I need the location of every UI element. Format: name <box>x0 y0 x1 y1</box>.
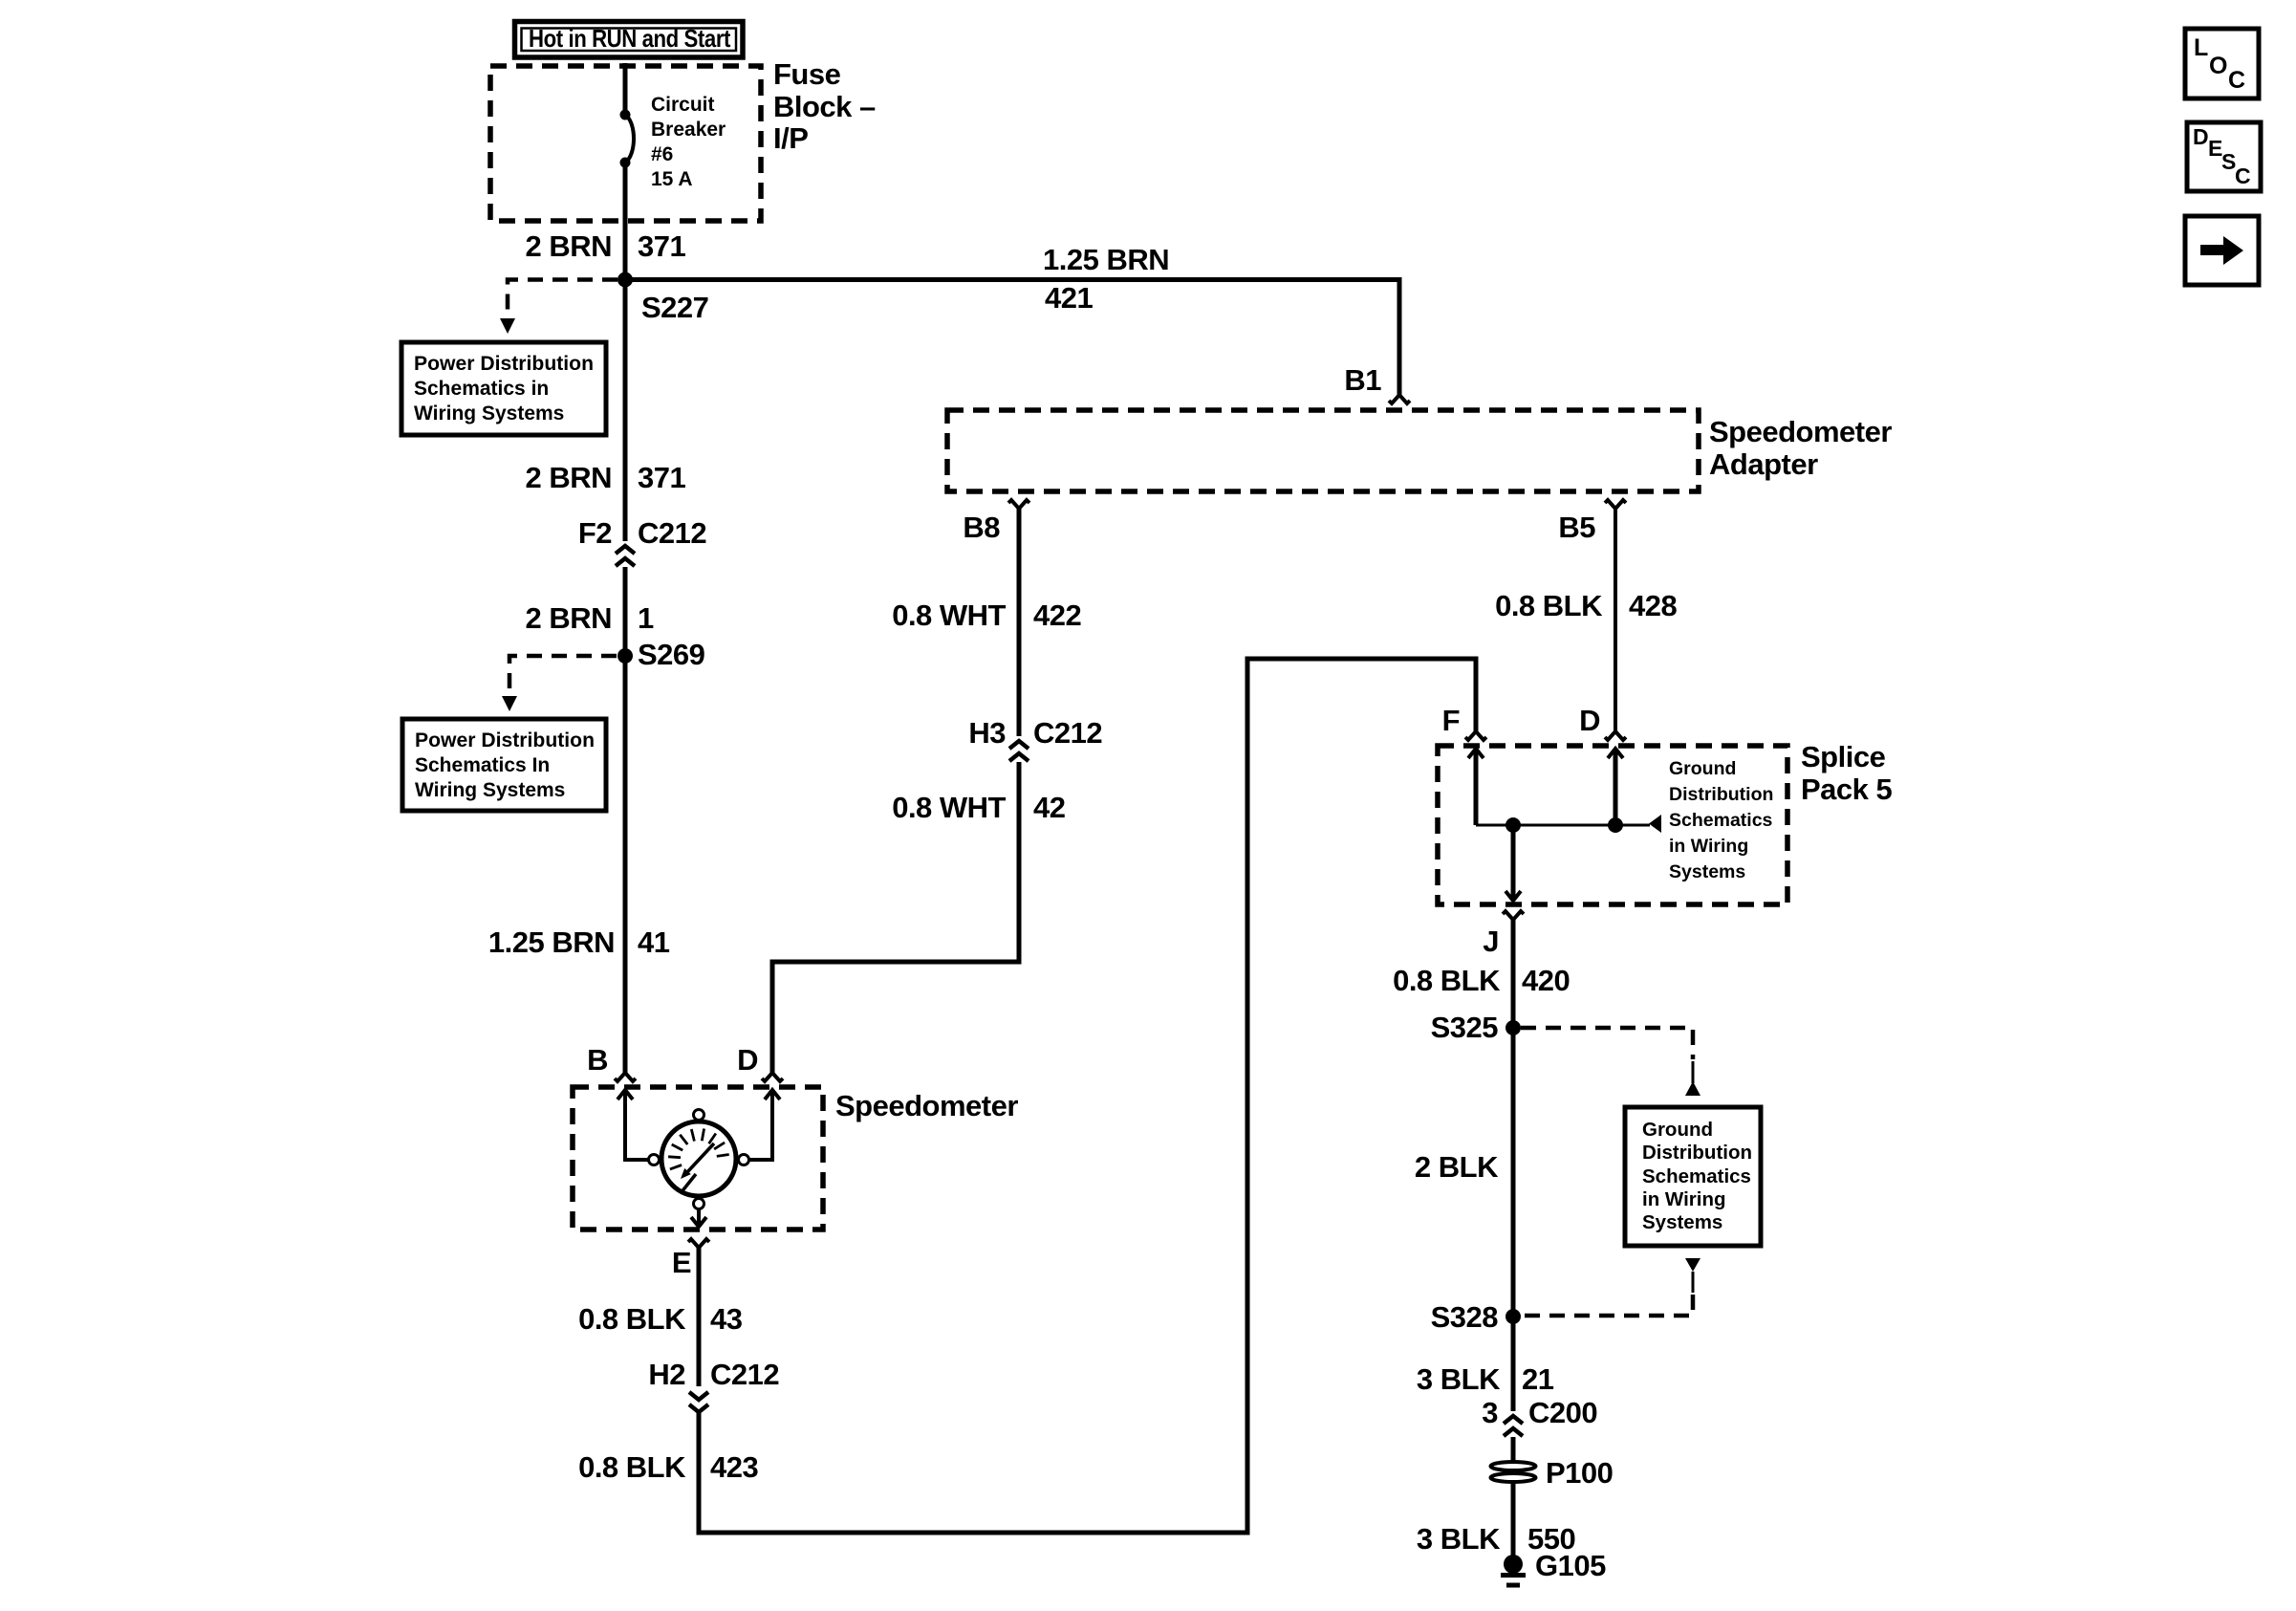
splice internal riser from D <box>1608 749 1623 825</box>
svg-text:G105: G105 <box>1535 1549 1606 1582</box>
wire 42 from C212 to speedometer D <box>772 762 1019 1073</box>
svg-text:Distribution: Distribution <box>1642 1142 1752 1164</box>
svg-text:J: J <box>1483 925 1499 958</box>
svg-text:Adapter: Adapter <box>1709 447 1818 481</box>
wire 550 to ground <box>1511 1437 1516 1558</box>
svg-text:#6: #6 <box>651 143 673 165</box>
dashed reference link from S269 <box>502 656 617 711</box>
svg-text:C212: C212 <box>1033 716 1102 750</box>
svg-text:422: 422 <box>1033 599 1081 632</box>
svg-text:421: 421 <box>1045 281 1093 315</box>
svg-text:S227: S227 <box>641 291 708 324</box>
reference box Ground Distribution Schematics in Wiring Systems <box>1625 1107 1761 1246</box>
svg-text:in Wiring: in Wiring <box>1642 1188 1726 1210</box>
svg-text:B5: B5 <box>1558 511 1595 544</box>
circuit breaker #6 15A <box>620 110 635 168</box>
svg-text:0.8 WHT: 0.8 WHT <box>892 599 1006 632</box>
svg-text:Distribution: Distribution <box>1669 784 1773 805</box>
svg-text:Ground: Ground <box>1669 758 1736 779</box>
internal wire from pin D to gauge <box>749 1090 780 1160</box>
svg-text:0.8 BLK: 0.8 BLK <box>1495 589 1603 622</box>
svg-text:43: 43 <box>710 1302 743 1336</box>
svg-text:1: 1 <box>638 601 654 635</box>
svg-text:Schematics: Schematics <box>1642 1165 1751 1187</box>
svg-text:P100: P100 <box>1546 1456 1613 1490</box>
svg-text:F2: F2 <box>578 516 612 550</box>
reference box Power Distribution Schematics In Wiring Systems (second) <box>402 719 606 811</box>
fuse block I/P dashed box <box>490 66 761 221</box>
wire 423 from C212 to splice pack F <box>699 659 1476 1533</box>
svg-text:L: L <box>2194 34 2208 61</box>
svg-text:1.25 BRN: 1.25 BRN <box>488 925 615 959</box>
svg-text:Pack 5: Pack 5 <box>1801 773 1893 806</box>
svg-text:Block –: Block – <box>773 90 876 123</box>
svg-text:2 BRN: 2 BRN <box>525 229 612 263</box>
svg-text:D: D <box>2193 124 2209 149</box>
wire 421 horizontal to B1 <box>625 280 1399 396</box>
grommet P100 <box>1491 1456 1614 1490</box>
svg-text:3: 3 <box>1482 1396 1498 1429</box>
splice internal riser from F <box>1468 749 1484 825</box>
svg-text:F: F <box>1442 704 1460 737</box>
svg-text:D: D <box>737 1043 758 1077</box>
speedometer gauge <box>649 1110 749 1209</box>
svg-text:0.8 BLK: 0.8 BLK <box>578 1450 686 1484</box>
pin J exit of splice pack <box>1483 825 1524 958</box>
svg-text:C: C <box>2235 163 2251 188</box>
svg-text:42: 42 <box>1033 791 1065 824</box>
svg-text:C: C <box>2228 67 2245 94</box>
splice bus with arrowhead <box>1476 815 1661 833</box>
wire 1 from C212 to S269 and down to B <box>623 567 628 1073</box>
svg-text:423: 423 <box>710 1450 758 1484</box>
internal wire from pin B to gauge <box>617 1090 648 1160</box>
wire 420 / 2 BLK / 21 main ground wire <box>1511 920 1516 1411</box>
svg-text:Ground: Ground <box>1642 1119 1713 1141</box>
splice internal note Ground Distribution Schematics in Wiring Systems <box>1669 758 1773 882</box>
svg-text:Splice: Splice <box>1801 740 1886 773</box>
wire into circuit breaker <box>623 63 628 115</box>
svg-text:Schematics in: Schematics in <box>414 378 549 400</box>
svg-text:0.8 WHT: 0.8 WHT <box>892 791 1006 824</box>
svg-text:Speedometer: Speedometer <box>835 1089 1018 1122</box>
splice pack 5 dashed box <box>1438 746 1787 904</box>
svg-text:2 BRN: 2 BRN <box>525 461 612 494</box>
svg-text:Fuse: Fuse <box>773 57 841 91</box>
svg-text:2 BRN: 2 BRN <box>525 601 612 635</box>
junction S325 <box>1505 1020 1521 1035</box>
pin E exit of speedometer <box>672 1208 709 1279</box>
svg-text:Systems: Systems <box>1669 861 1745 882</box>
icon right arrow <box>2185 216 2259 285</box>
dashed reference link from S325 <box>1521 1028 1700 1096</box>
wire 43 from E to C212 <box>697 1248 702 1386</box>
svg-text:C212: C212 <box>710 1358 779 1391</box>
svg-text:Power Distribution: Power Distribution <box>414 353 594 375</box>
speedometer dashed box <box>573 1087 823 1230</box>
reference box Power Distribution Schematics in Wiring Systems <box>401 342 606 435</box>
svg-text:H2: H2 <box>648 1358 685 1391</box>
label box Hot in RUN and Start <box>515 22 744 58</box>
svg-text:420: 420 <box>1522 964 1570 997</box>
junction S269 <box>617 648 633 664</box>
svg-text:41: 41 <box>638 925 670 959</box>
speedometer adapter dashed box <box>947 410 1699 491</box>
svg-text:428: 428 <box>1629 589 1677 622</box>
svg-text:S325: S325 <box>1431 1011 1499 1044</box>
svg-text:3 BLK: 3 BLK <box>1417 1362 1501 1396</box>
svg-text:Systems: Systems <box>1642 1211 1722 1233</box>
dashed reference link from S227 <box>500 280 617 335</box>
svg-text:0.8 BLK: 0.8 BLK <box>578 1302 686 1336</box>
svg-text:I/P: I/P <box>773 121 808 155</box>
label Circuit Breaker #6 15 A <box>651 94 726 190</box>
svg-text:Wiring Systems: Wiring Systems <box>414 403 564 425</box>
svg-text:Breaker: Breaker <box>651 119 726 141</box>
pin B5 of adapter <box>1605 500 1626 509</box>
svg-text:Hot in RUN and Start: Hot in RUN and Start <box>529 24 731 53</box>
svg-text:B: B <box>587 1043 608 1077</box>
svg-text:D: D <box>1579 704 1600 737</box>
dashed reference link to S328 <box>1521 1258 1700 1316</box>
svg-text:Power Distribution: Power Distribution <box>415 729 595 751</box>
svg-text:371: 371 <box>638 229 685 263</box>
pin B8 of adapter <box>1008 500 1029 509</box>
svg-text:E: E <box>672 1246 691 1279</box>
svg-text:C212: C212 <box>638 516 706 550</box>
svg-text:0.8 BLK: 0.8 BLK <box>1393 964 1501 997</box>
svg-text:Circuit: Circuit <box>651 94 715 116</box>
splice bus junction dot (D riser) <box>1608 817 1623 833</box>
junction S328 <box>1505 1309 1521 1324</box>
svg-text:S269: S269 <box>638 638 705 671</box>
ground G105 <box>1501 1549 1606 1585</box>
svg-text:21: 21 <box>1522 1362 1554 1396</box>
splice bus junction dot (J drop) <box>1505 817 1521 833</box>
icon LOC <box>2185 29 2259 98</box>
svg-text:H3: H3 <box>968 716 1006 750</box>
svg-text:B1: B1 <box>1344 363 1381 397</box>
svg-text:15 A: 15 A <box>651 168 693 190</box>
svg-text:2 BLK: 2 BLK <box>1415 1150 1499 1184</box>
svg-text:S328: S328 <box>1431 1300 1499 1334</box>
svg-text:371: 371 <box>638 461 685 494</box>
svg-text:Schematics: Schematics <box>1669 810 1773 831</box>
svg-text:1.25 BRN: 1.25 BRN <box>1043 243 1169 276</box>
svg-text:C200: C200 <box>1528 1396 1597 1429</box>
wire 422 from B8 <box>1017 509 1022 736</box>
wire 428 from B5 to splice pack D <box>1614 509 1617 731</box>
svg-text:Wiring Systems: Wiring Systems <box>415 779 565 801</box>
svg-text:Schematics In: Schematics In <box>415 754 550 776</box>
svg-text:Speedometer: Speedometer <box>1709 415 1892 448</box>
junction S227 <box>617 272 633 288</box>
svg-text:B8: B8 <box>963 511 1000 544</box>
wire 371 from breaker to S227 <box>623 163 628 541</box>
icon DESC <box>2187 122 2261 191</box>
svg-text:O: O <box>2209 53 2227 79</box>
svg-text:in Wiring: in Wiring <box>1669 836 1748 857</box>
svg-text:3 BLK: 3 BLK <box>1417 1522 1501 1556</box>
